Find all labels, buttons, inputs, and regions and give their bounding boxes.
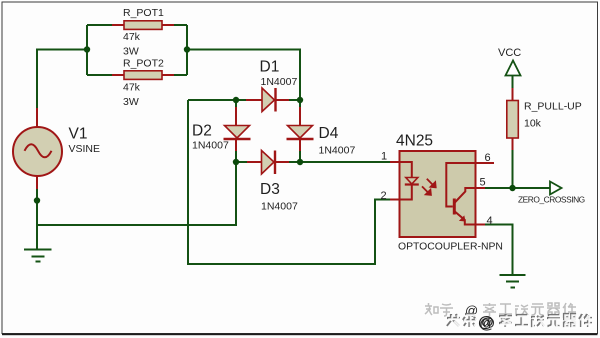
node pin5/pullup: [509, 185, 515, 191]
pin 5 stub: [476, 187, 486, 189]
node R_POT right: [184, 46, 190, 52]
svg-text:D4: D4: [319, 125, 339, 142]
svg-text:D1: D1: [260, 59, 280, 76]
svg-text:3W: 3W: [123, 46, 139, 58]
resistor R_POT2: [112, 71, 174, 80]
svg-text:3W: 3W: [123, 96, 139, 108]
svg-text:47k: 47k: [123, 82, 141, 94]
svg-text:VCC: VCC: [498, 47, 521, 59]
diode D4: [287, 107, 314, 151]
wire bridge to opto pin1: [300, 161, 391, 163]
resistor R_POT1: [112, 21, 174, 30]
source V1: [13, 108, 62, 189]
svg-text:4N25: 4N25: [396, 133, 433, 150]
node V1 negative: [34, 197, 40, 203]
diode D1: [246, 88, 289, 112]
wire R_POT right vertical: [186, 25, 188, 75]
opto-coupler U1 4N25 box: [400, 151, 476, 237]
pin 6 stub: [476, 162, 495, 164]
wire resistors to bridge top right: [187, 50, 300, 101]
pin 2 stub: [390, 199, 400, 201]
svg-text:D3: D3: [260, 181, 280, 198]
opto internal LED: [400, 162, 419, 200]
wire R_PULL-UP to pin5 node: [512, 149, 514, 188]
svg-text:1N4007: 1N4007: [261, 201, 298, 213]
pin 1 stub: [390, 161, 400, 163]
opto LED emission arrows: [422, 179, 436, 195]
wire V1 top vertical: [37, 50, 88, 128]
svg-text:47k: 47k: [123, 31, 141, 43]
svg-text:1: 1: [381, 151, 387, 163]
watermark toutiao line: [447, 314, 593, 328]
node V1/R_POT left: [84, 46, 90, 52]
svg-text:4: 4: [487, 215, 493, 227]
svg-text:ZERO_CROSSING: ZERO_CROSSING: [518, 195, 585, 205]
ground GND2 under pin4: [500, 275, 526, 288]
wire R_POT1 row: [87, 24, 114, 26]
wire D2 vertical: [235, 100, 237, 108]
svg-text:VSINE: VSINE: [69, 143, 101, 155]
pin 4 stub: [476, 224, 486, 226]
node bridge top-left: [233, 97, 239, 103]
svg-text:OPTOCOUPLER-NPN: OPTOCOUPLER-NPN: [398, 242, 503, 253]
wire V1 bottom to ground: [36, 186, 38, 250]
opto pin stubs: [390, 162, 494, 225]
svg-text:2: 2: [381, 190, 387, 202]
node bridge bottom-left: [233, 159, 239, 165]
svg-text:5: 5: [480, 177, 486, 189]
wire R_POT left vertical: [86, 25, 88, 75]
watermark zhihu line: [425, 303, 576, 316]
wire pin5 to output terminal: [484, 187, 550, 189]
opto internal phototransistor: [446, 163, 475, 225]
svg-text:D2: D2: [192, 123, 212, 140]
wire V1 bottom to bridge lower-left: [37, 162, 236, 225]
wire pin4 to ground: [484, 225, 513, 276]
wire R_POT2 row: [87, 74, 114, 76]
power VCC arrow: [506, 61, 521, 76]
svg-text:6: 6: [485, 152, 491, 164]
svg-text:R_POT1: R_POT1: [123, 7, 164, 19]
wire D4 vertical: [299, 100, 301, 108]
svg-text:1N4007: 1N4007: [261, 76, 298, 88]
diode D3: [247, 151, 289, 175]
svg-text:10k: 10k: [524, 118, 542, 130]
svg-text:V1: V1: [69, 126, 88, 143]
svg-text:1N4007: 1N4007: [319, 145, 356, 157]
svg-text:@: @: [479, 315, 495, 332]
diode D2: [224, 107, 251, 151]
svg-text:R_PULL-UP: R_PULL-UP: [524, 101, 582, 113]
wire bridge top row: [188, 99, 250, 101]
ground GND1 under V1: [24, 250, 52, 262]
node bridge top-right: [297, 97, 303, 103]
wire bridge left down to pin2 loop: [188, 100, 391, 264]
node bridge bottom-right: [297, 159, 303, 165]
svg-text:R_POT2: R_POT2: [123, 58, 164, 70]
wire VCC to R_PULL-UP: [512, 76, 514, 90]
wire bridge bottom row: [236, 161, 250, 163]
resistor R_PULL-UP: [507, 88, 519, 150]
svg-text:1N4007: 1N4007: [192, 140, 229, 152]
terminal ZERO_CROSSING arrow: [550, 182, 562, 195]
